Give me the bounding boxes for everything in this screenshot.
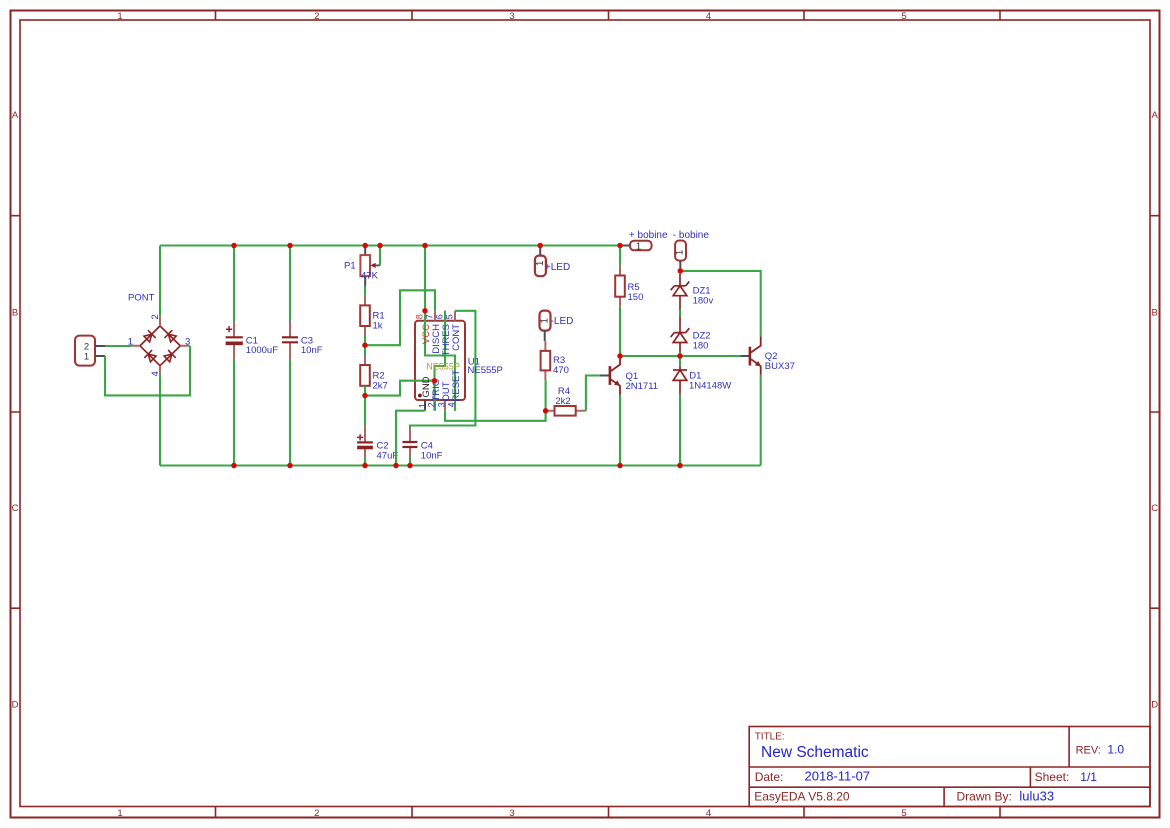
svg-text:3: 3 (185, 337, 190, 348)
svg-text:3: 3 (437, 402, 447, 407)
wire node A to U1 pin7 DISCH (365, 290, 435, 345)
svg-text:1: 1 (117, 808, 122, 819)
resistor R5 (615, 266, 643, 307)
diode D1 (673, 365, 731, 394)
resistor R1 (360, 295, 384, 335)
wire DZ2 to zener node (679, 352, 681, 356)
svg-text:PONT: PONT (128, 293, 155, 304)
junction TRIG/THRES (432, 378, 438, 384)
svg-text:8: 8 (414, 314, 424, 319)
zener diode DZ2 (671, 316, 711, 352)
bridge rectifier PONT (128, 293, 191, 377)
connector - bobine (673, 230, 710, 271)
svg-text:2018-11-07: 2018-11-07 (805, 769, 871, 784)
wire P1 wiper to rail (379, 246, 381, 266)
wire C2 to ground rail (364, 458, 366, 466)
junction C3 top rail (287, 243, 293, 249)
svg-text:10nF: 10nF (421, 451, 443, 462)
wire C1 (233, 246, 235, 466)
junction Q1 collector/R5 (617, 353, 623, 359)
svg-text:5: 5 (901, 11, 906, 22)
svg-text:Date:: Date: (755, 770, 784, 784)
svg-text:1: 1 (675, 249, 686, 255)
junction +LED top rail (537, 243, 543, 249)
svg-text:4: 4 (706, 11, 711, 22)
svg-text:5: 5 (901, 808, 906, 819)
junction D1 ground rail (677, 463, 683, 469)
svg-text:New Schematic: New Schematic (761, 744, 869, 761)
capacitor C1 (226, 321, 279, 360)
wire R4 to Q1 base (586, 376, 600, 411)
svg-text:NE555P: NE555P (426, 361, 460, 371)
resistor R3 (541, 341, 569, 380)
svg-text:P1: P1 (344, 261, 356, 272)
junction R3/R4/OUT node C (543, 408, 549, 414)
transistor Q2 BUX37 (741, 337, 795, 375)
svg-text:D: D (12, 699, 19, 710)
junction C1 ground rail (231, 463, 237, 469)
svg-text:A: A (12, 110, 19, 121)
svg-text:CONT: CONT (451, 324, 462, 351)
svg-text:C: C (12, 503, 19, 514)
svg-text:4: 4 (706, 808, 711, 819)
svg-text:1: 1 (117, 11, 122, 22)
svg-text:1.0: 1.0 (1107, 743, 1124, 757)
junction U1 GND ground rail (393, 463, 399, 469)
junction Q1 emitter ground rail (617, 463, 623, 469)
svg-text:3: 3 (509, 808, 514, 819)
svg-text:180v: 180v (693, 295, 714, 306)
svg-text:6: 6 (434, 314, 444, 319)
svg-text:B: B (12, 307, 18, 318)
connector +LED (535, 246, 570, 277)
svg-text:470: 470 (553, 365, 569, 376)
junction R5 / + bobine top rail (617, 243, 623, 249)
junction - bobine/DZ1 (678, 268, 684, 274)
diode BL (144, 350, 156, 362)
connector J1 (2-pin) (75, 336, 105, 366)
svg-text:2k2: 2k2 (555, 396, 570, 407)
wire zener node to D1 (679, 356, 681, 365)
wire U1 pin3 OUT to node C (445, 411, 546, 421)
junction C4 ground rail (407, 463, 413, 469)
wire U1 pin6 THRES to TRIG (435, 311, 446, 381)
svg-text:4: 4 (447, 402, 457, 407)
junction C1 top rail (231, 243, 237, 249)
wire R5 to Q1 collector (619, 307, 621, 356)
svg-text:2: 2 (314, 11, 319, 22)
svg-text:D: D (1151, 699, 1158, 710)
svg-text:BUX37: BUX37 (765, 361, 795, 372)
junction R2/C2/TRIG node B (362, 393, 368, 399)
svg-text:7: 7 (424, 314, 434, 319)
svg-text:-LED: -LED (551, 316, 574, 327)
wire U1 pin5 CONT to C4 (410, 311, 475, 427)
svg-text:10nF: 10nF (301, 345, 323, 356)
svg-text:NE555P: NE555P (468, 365, 503, 376)
junction P1 wiper top rail (377, 243, 383, 249)
svg-text:A: A (1152, 110, 1159, 121)
svg-text:C: C (1151, 503, 1158, 514)
wire D1 to ground rail (679, 395, 681, 466)
svg-text:150: 150 (628, 292, 644, 303)
transistor Q1 2N1711 (600, 356, 658, 395)
wire - bobine to Q2 collector (680, 271, 760, 337)
wire ground bottom rail (160, 464, 761, 466)
wire U1 pin1 GND to ground rail (396, 411, 425, 466)
zener diode DZ1 (671, 274, 714, 310)
wire connector pin1 to bridge pin3 (105, 346, 190, 395)
wire rail to R5 (619, 246, 621, 266)
wire connector pin2 to bridge pin1 (105, 345, 131, 347)
junction P1 top rail (362, 243, 368, 249)
wire bridge pin4 to ground rail (159, 374, 161, 465)
op-amp U1 NE555P labels (414, 314, 502, 408)
diode BR (164, 350, 176, 362)
svg-text:+ bobine: + bobine (629, 230, 668, 241)
svg-text:180: 180 (693, 340, 709, 351)
svg-text:- bobine: - bobine (673, 230, 710, 241)
svg-text:Sheet:: Sheet: (1035, 770, 1070, 784)
wire Q1 collector to zener node (620, 355, 741, 357)
svg-text:+LED: +LED (545, 262, 570, 273)
svg-text:2: 2 (314, 808, 319, 819)
svg-text:1: 1 (84, 351, 89, 362)
wire DZ1 to DZ2 (679, 310, 681, 316)
wire C4 to ground rail (409, 457, 411, 466)
connector -LED (540, 311, 574, 341)
svg-text:1k: 1k (373, 321, 383, 332)
capacitor C2 (357, 426, 398, 461)
op-amp U1 NE555P timer (415, 311, 465, 411)
wire node B to C2 (364, 396, 366, 427)
wire VCC top rail (160, 244, 620, 246)
svg-text:47K: 47K (361, 270, 379, 281)
svg-text:2N1711: 2N1711 (626, 381, 659, 392)
svg-text:Drawn By:: Drawn By: (957, 789, 1012, 803)
junction R1/R2/DISCH node A (362, 342, 368, 348)
potentiometer P1 (344, 246, 380, 287)
diode TL (144, 330, 156, 342)
junction C3 ground rail (287, 463, 293, 469)
wire C3 (289, 246, 291, 466)
svg-text:REV:: REV: (1076, 745, 1101, 757)
connector + bobine (620, 230, 668, 253)
capacitor C3 (282, 321, 323, 360)
wire Q2 emitter to ground rail (760, 375, 762, 466)
svg-text:1/1: 1/1 (1080, 770, 1097, 784)
svg-text:EasyEDA V5.8.20: EasyEDA V5.8.20 (754, 789, 850, 803)
wire U1 pin8 to pin4 RESET (425, 311, 455, 411)
wire R3 to node C (545, 380, 547, 411)
wire R2 to node B (364, 386, 366, 396)
svg-text:RESET: RESET (451, 370, 462, 402)
junction C2 ground rail (362, 463, 368, 469)
resistor R2 (360, 355, 388, 396)
svg-text:5: 5 (444, 314, 454, 319)
capacitor C4 (402, 427, 442, 462)
wire P1 to R1 (364, 286, 366, 295)
junction DZ2/D1/Q2 base (677, 353, 683, 359)
svg-text:3: 3 (509, 11, 514, 22)
wire Q1 emitter to ground rail (619, 395, 621, 466)
svg-text:2: 2 (427, 402, 437, 407)
svg-text:1: 1 (636, 241, 642, 252)
svg-text:2k7: 2k7 (373, 381, 388, 392)
svg-text:TITLE:: TITLE: (755, 732, 785, 743)
wire node A to R2 (364, 345, 366, 355)
svg-text:1: 1 (540, 318, 551, 324)
svg-text:B: B (1152, 307, 1158, 318)
svg-text:1000uF: 1000uF (246, 345, 278, 356)
wire rail to U1 pin8 VCC (424, 246, 426, 311)
svg-text:1N4148W: 1N4148W (689, 380, 731, 391)
wire node B to U1 pin2 TRIG (365, 381, 435, 411)
svg-text:lulu33: lulu33 (1019, 789, 1054, 804)
wire R1 to node A (364, 336, 366, 346)
junction U1 VCC top rail (422, 243, 428, 249)
resistor R4 (546, 386, 586, 416)
diode TR (165, 330, 177, 342)
junction U1 pin8/RESET (422, 308, 428, 314)
title block (749, 727, 1150, 807)
wire bridge pin2 to rail (159, 246, 161, 316)
